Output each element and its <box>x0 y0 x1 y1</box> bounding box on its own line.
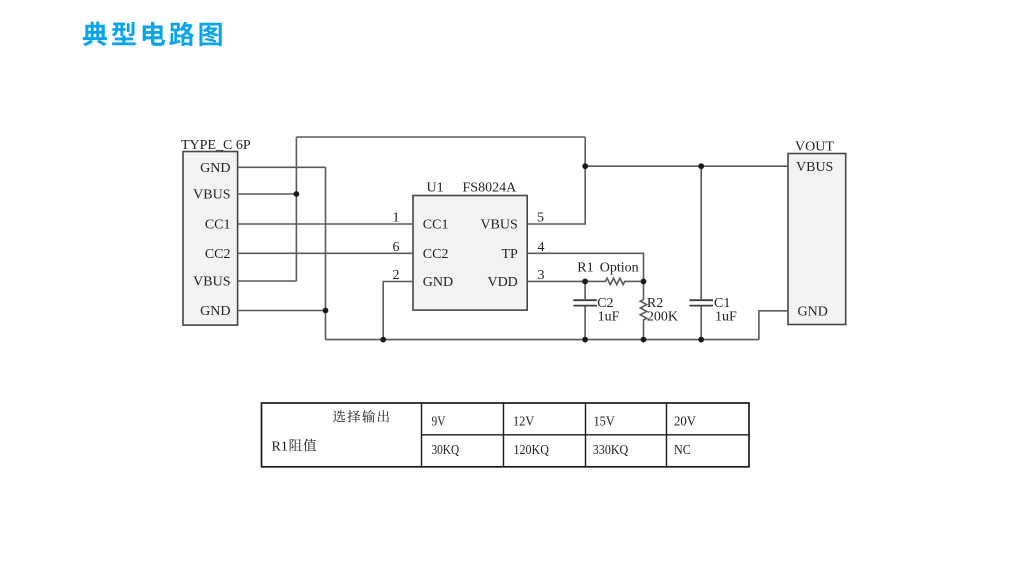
svg-text:VBUS: VBUS <box>796 160 833 175</box>
table header 选择输出 <box>333 410 389 423</box>
label C2 value 1uF <box>598 309 620 324</box>
svg-text:GND: GND <box>423 275 453 290</box>
wire CC2 net <box>238 252 413 254</box>
connector label TYPE_C 6P <box>181 138 251 153</box>
connector J1 TYPE_C 6P box <box>183 152 238 326</box>
pin number 3 <box>538 268 545 283</box>
svg-text:CC2: CC2 <box>205 247 231 262</box>
label R2 <box>647 296 663 311</box>
wire R1 right to node <box>629 280 644 282</box>
IC pin label CC2 (left) <box>423 247 449 262</box>
pin number 2 <box>393 268 400 283</box>
label C2 <box>597 296 613 311</box>
wire GND row6 from connector <box>238 310 326 312</box>
connector pin label GND (row 1) <box>200 161 230 176</box>
node VBUS rail junction <box>582 163 588 169</box>
connector pin label CC1 (row 3) <box>205 218 231 233</box>
table column dividers <box>422 403 667 467</box>
connector VOUT box <box>788 154 846 325</box>
svg-text:GND: GND <box>200 304 230 319</box>
page title 典型电路图 <box>83 22 222 47</box>
connector pin label GND (row 6) <box>200 304 230 319</box>
table cell 12V <box>513 415 534 430</box>
node R1/R2/TP junction <box>641 279 647 285</box>
node R2 bottom junction <box>641 337 647 343</box>
svg-text:15V: 15V <box>594 415 615 430</box>
svg-text:1uF: 1uF <box>598 309 620 324</box>
table middle row divider <box>422 434 750 436</box>
label R1 <box>577 261 593 276</box>
table cell 15V <box>594 415 615 430</box>
svg-text:1uF: 1uF <box>715 309 737 324</box>
wire VBUS row2 from connector <box>238 193 297 195</box>
wire VBUS row5 from connector <box>238 280 297 282</box>
svg-text:VBUS: VBUS <box>480 218 517 233</box>
pin number 4 <box>538 240 545 255</box>
wire vertical VBUS link at x=296 <box>295 137 297 281</box>
node VBUS row2 junction <box>294 191 300 197</box>
wire IC pin2 GND <box>383 282 413 340</box>
svg-text:TP: TP <box>501 247 518 262</box>
label Option <box>600 261 639 276</box>
svg-text:9V: 9V <box>432 415 446 430</box>
pin number 6 <box>393 240 400 255</box>
connector pin label VBUS (row 5) <box>193 275 230 290</box>
svg-text:TYPE_C 6P: TYPE_C 6P <box>181 138 251 153</box>
label C1 <box>714 296 730 311</box>
label R2 value 200K <box>647 309 678 324</box>
connector pin label VBUS (row 2) <box>193 188 230 203</box>
svg-text:GND: GND <box>200 161 230 176</box>
svg-text:330KQ: 330KQ <box>593 443 628 458</box>
svg-text:30KQ: 30KQ <box>432 443 460 458</box>
svg-text:CC1: CC1 <box>423 218 449 233</box>
wire GND row1 from connector <box>238 166 326 168</box>
wire C2 bottom <box>584 307 586 340</box>
label C1 value 1uF <box>715 309 737 324</box>
svg-text:200K: 200K <box>647 309 678 324</box>
pin number 5 <box>537 211 544 226</box>
IC pin label TP (right) <box>501 247 518 262</box>
table header R1阻值 <box>272 439 317 455</box>
VOUT pin label GND <box>798 305 828 320</box>
op-amp/IC U1 FS8024A body <box>413 196 527 311</box>
svg-text:12V: 12V <box>513 415 534 430</box>
wire IC pin5 VBUS up to top rail <box>527 137 585 224</box>
table cell 20V <box>674 415 696 430</box>
IC pin label GND (left) <box>423 275 453 290</box>
svg-text:20V: 20V <box>674 415 696 430</box>
svg-text:U1: U1 <box>427 181 444 196</box>
node GND row6 junction <box>323 308 329 314</box>
svg-text:CC1: CC1 <box>205 218 231 233</box>
svg-text:CC2: CC2 <box>423 247 449 262</box>
capacitor C1 <box>700 166 702 299</box>
table cell NC <box>674 443 691 458</box>
svg-text:VDD: VDD <box>487 275 517 290</box>
pin number 1 <box>393 211 400 226</box>
IC pin label VBUS (right) <box>480 218 517 233</box>
wire C1 bottom <box>700 307 702 340</box>
svg-text:R1: R1 <box>272 439 288 454</box>
VOUT pin label VBUS <box>796 160 833 175</box>
IC part number FS8024A <box>463 181 518 196</box>
connector pin label CC2 (row 4) <box>205 247 231 262</box>
IC pin label VDD (right) <box>487 275 517 290</box>
svg-text:VBUS: VBUS <box>193 275 230 290</box>
svg-text:NC: NC <box>674 443 691 458</box>
svg-text:R1: R1 <box>577 261 593 276</box>
svg-text:VBUS: VBUS <box>193 188 230 203</box>
svg-text:FS8024A: FS8024A <box>463 181 518 196</box>
IC pin label CC1 (left) <box>423 218 449 233</box>
wire top VBUS bus (GND? no: VBUS top rail) <box>296 136 585 138</box>
svg-text:VOUT: VOUT <box>795 140 834 155</box>
svg-text:Option: Option <box>600 261 639 276</box>
node pin2 GND rail junction <box>380 337 386 343</box>
wire IC pin3 VDD to R1 left node <box>527 280 601 282</box>
resistor R1 <box>601 278 629 284</box>
wire bottom GND rail <box>326 339 759 341</box>
node C1 bottom junction <box>698 337 704 343</box>
wire VBUS to VOUT <box>585 165 788 167</box>
svg-text:GND: GND <box>798 305 828 320</box>
node VDD/R1/C2 junction <box>582 279 588 285</box>
node C2 bottom junction <box>582 337 588 343</box>
capacitor C2 <box>584 281 586 299</box>
table R1 value selection: outer border <box>262 403 750 467</box>
svg-text:120KQ: 120KQ <box>514 443 549 458</box>
wire IC pin4 TP to R1 right node <box>527 253 643 281</box>
table cell 120KQ <box>514 443 549 458</box>
node C1 top junction <box>698 163 704 169</box>
wire R2 bottom <box>643 322 645 340</box>
connector label VOUT <box>795 140 834 155</box>
resistor R2 <box>643 281 645 296</box>
IC reference U1 <box>427 181 444 196</box>
wire CC1 net <box>238 223 413 225</box>
table cell 9V <box>432 415 446 430</box>
wire GND rail to VOUT GND <box>759 311 788 340</box>
table cell 330KQ <box>593 443 628 458</box>
wire vertical GND at x=325 <box>325 167 327 339</box>
table cell 30KQ <box>432 443 460 458</box>
